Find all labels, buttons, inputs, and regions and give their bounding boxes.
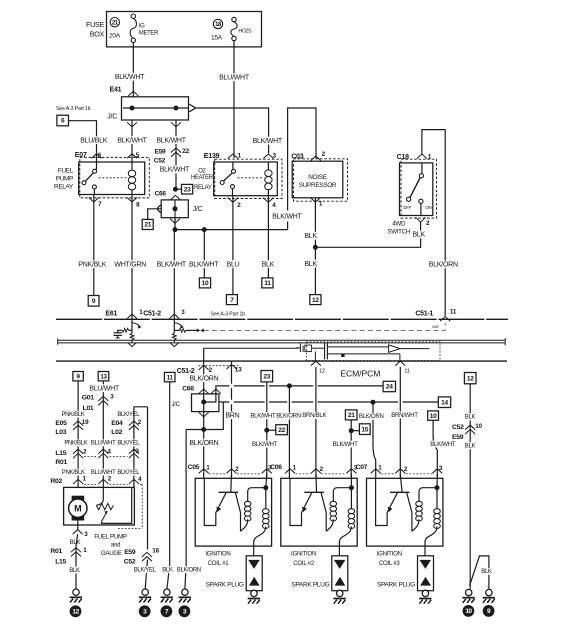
- svg-text:L15: L15: [55, 450, 66, 457]
- fuse box: [107, 12, 262, 47]
- fuse F21 IG METER: [131, 14, 135, 18]
- svg-text:7: 7: [98, 201, 102, 208]
- svg-text:IGNITION: IGNITION: [291, 550, 316, 557]
- svg-text:GAUGE: GAUGE: [101, 550, 122, 557]
- svg-text:PNK/BLK: PNK/BLK: [78, 261, 106, 268]
- svg-text:COIL #2: COIL #2: [293, 560, 315, 567]
- svg-text:BLU: BLU: [227, 261, 240, 268]
- E61 pin arrow: [127, 314, 137, 319]
- reference box 10 upper: [199, 278, 210, 288]
- svg-text:IGNITION: IGNITION: [377, 550, 402, 557]
- wire BLK/WHT box21 to C06 pin3: [345, 410, 357, 420]
- wire BRN/BLK ECM pin12 to C06 pin2: [315, 367, 317, 478]
- C51-2 pin 13 arrow: [227, 365, 237, 370]
- wire BLU E139 pin2 to box 7: [232, 196, 234, 295]
- E07 pin 6 arrow: [92, 154, 102, 159]
- svg-text:HO2S: HO2S: [238, 29, 252, 35]
- E07 pin 7 arrow: [89, 197, 99, 202]
- svg-text:11: 11: [450, 309, 457, 316]
- svg-text:J/C: J/C: [193, 206, 203, 213]
- ground number 10: [463, 605, 475, 617]
- ground number 3 left: [139, 605, 151, 617]
- C66 lower bottom arrow: [199, 412, 209, 417]
- ignition coil C06 box: [281, 478, 357, 546]
- spark plug #1 ground: [253, 590, 255, 592]
- svg-text:BLK: BLK: [304, 233, 317, 240]
- svg-text:COIL #1: COIL #1: [208, 560, 230, 567]
- spark plug #3 ground: [424, 590, 426, 592]
- gauge return to R02 pin 4: [102, 487, 132, 523]
- reference box 22: [276, 425, 288, 435]
- ECM boundary double line: [58, 339, 505, 341]
- labels row 3: [61, 469, 85, 476]
- svg-text:C52: C52: [154, 158, 166, 165]
- spark plug #3: [418, 556, 434, 591]
- reference box 11 upper: [262, 278, 273, 288]
- svg-text:L15: L15: [55, 558, 66, 565]
- svg-text:C06: C06: [270, 464, 282, 471]
- wire BLK box11 to ground 7: [167, 382, 170, 589]
- svg-text:BLK/YEL: BLK/YEL: [117, 470, 140, 476]
- reference box 12 lower: [464, 373, 476, 384]
- wire splice left branch to ground: [186, 429, 204, 431]
- svg-text:BRN: BRN: [225, 412, 239, 419]
- ignition coil C07 box: [367, 478, 443, 546]
- C66 bottom pin arrow: [170, 219, 180, 224]
- svg-text:20A: 20A: [109, 33, 121, 40]
- svg-text:BRN/BLK: BRN/BLK: [302, 412, 326, 419]
- svg-text:BLK/YEL: BLK/YEL: [117, 441, 140, 447]
- svg-text:BLK: BLK: [465, 414, 476, 421]
- svg-text:19: 19: [82, 419, 89, 426]
- wire BLK/WHT splice to box 10: [203, 230, 205, 278]
- E139 pin 1 arrow: [228, 154, 238, 159]
- ground G10: [462, 589, 474, 603]
- svg-text:C05: C05: [188, 464, 200, 471]
- svg-text:BLK/ORN: BLK/ORN: [189, 440, 218, 447]
- C18 pin 2 arrow: [416, 217, 426, 222]
- svg-text:R02: R02: [50, 478, 62, 485]
- svg-text:BLK/ORN: BLK/ORN: [276, 413, 301, 420]
- C06 primary winding: [333, 488, 351, 502]
- wire BLK/YEL E04 to R02 pin4: [133, 419, 135, 488]
- inline connector E59/C52 pin 22: [171, 148, 181, 153]
- svg-text:23: 23: [184, 186, 191, 193]
- svg-text:1: 1: [378, 464, 382, 471]
- svg-text:SPARK PLUG: SPARK PLUG: [206, 582, 244, 589]
- bulkhead boundary line: [56, 318, 508, 320]
- svg-text:22: 22: [278, 427, 285, 434]
- wire labels row PNK/BLK BLK/YEL: [61, 411, 85, 418]
- svg-text:WHT/GRN: WHT/GRN: [114, 261, 146, 268]
- svg-text:BLK/WHT: BLK/WHT: [156, 137, 186, 144]
- wire BLK C03 pin1 to box 12: [314, 198, 316, 295]
- svg-text:12: 12: [312, 297, 319, 304]
- svg-text:E04: E04: [111, 420, 123, 427]
- svg-text:4: 4: [272, 202, 276, 209]
- svg-text:HEATER: HEATER: [191, 175, 214, 181]
- svg-text:MAF: MAF: [432, 325, 440, 329]
- wire BLK/ORN to C07 pin1: [373, 402, 376, 478]
- wire BLK/ORN splice to ground 3: [185, 430, 186, 589]
- C05 secondary winding: [266, 474, 267, 488]
- ECM internal circuitry: [204, 347, 298, 349]
- ground junction dot BLK net: [313, 245, 318, 250]
- svg-text:15: 15: [361, 426, 368, 433]
- svg-text:BLK/WHT: BLK/WHT: [117, 137, 147, 144]
- reference box 14: [438, 397, 450, 408]
- svg-text:SPARK PLUG: SPARK PLUG: [291, 582, 329, 589]
- C51-2 pin 3 arrow: [169, 314, 179, 319]
- svg-text:E41: E41: [110, 86, 122, 93]
- C51-2 pin3 filter branch: [173, 319, 175, 342]
- svg-text:J/C: J/C: [107, 113, 117, 120]
- svg-text:10: 10: [430, 413, 437, 420]
- wire C66 to box 14 with C07 pin1 drop: [219, 401, 438, 403]
- E61 noise filter branch: [131, 319, 133, 342]
- svg-text:BLU/WHT: BLU/WHT: [219, 74, 250, 81]
- wire BLK/ORN to C06 pin1: [288, 386, 290, 478]
- svg-text:BLK: BLK: [262, 261, 275, 268]
- svg-text:22: 22: [182, 148, 189, 155]
- wire BLU/WHT fuse18 to E139 pin1: [233, 41, 235, 158]
- wire BLK/YEL to ground 3: [145, 407, 147, 589]
- E07 pin 5 arrow: [127, 154, 137, 159]
- svg-text:FUSE: FUSE: [86, 20, 104, 29]
- svg-text:C03: C03: [291, 153, 304, 160]
- svg-text:BLK: BLK: [69, 567, 80, 574]
- connector C51-2 lower dashes: [199, 365, 239, 367]
- wire PNK/BLK E07 pin7 to box 9: [93, 195, 95, 296]
- C66 left exit arrow: [157, 205, 161, 213]
- E61 branch arrow: [132, 323, 139, 326]
- svg-text:21: 21: [348, 412, 355, 419]
- svg-text:BLK/WHT: BLK/WHT: [333, 441, 359, 448]
- C05 primary winding: [248, 488, 266, 502]
- E139 coil: [267, 162, 269, 196]
- svg-text:1: 1: [428, 154, 432, 161]
- svg-text:1: 1: [83, 547, 87, 554]
- C05 pin arrows: [199, 469, 209, 474]
- svg-text:4: 4: [107, 448, 111, 455]
- C06 secondary winding: [350, 474, 352, 488]
- ground G12: [70, 589, 82, 603]
- svg-text:9: 9: [92, 298, 96, 305]
- wire BRN C51-2 pin13 to C05 pin2: [231, 361, 233, 478]
- svg-text:C51-1: C51-1: [415, 311, 433, 318]
- ground G7: [161, 589, 173, 603]
- svg-text:13: 13: [235, 367, 242, 374]
- svg-text:1: 1: [83, 476, 87, 483]
- fuel pump and gauge box: [64, 487, 135, 525]
- svg-text:BLK/ORN: BLK/ORN: [177, 567, 201, 573]
- C03 pin 1 arrow: [310, 198, 320, 203]
- svg-text:3: 3: [181, 309, 185, 316]
- svg-text:R01: R01: [55, 459, 67, 466]
- svg-text:E59: E59: [155, 148, 166, 155]
- E07 switch-coil dashed link: [99, 177, 127, 179]
- C03 pin 2 arrow: [311, 156, 321, 161]
- svg-text:E61: E61: [105, 310, 117, 317]
- svg-text:16: 16: [152, 548, 159, 555]
- fuel pump motor M: [72, 496, 85, 502]
- svg-text:4WD: 4WD: [392, 221, 406, 228]
- svg-text:C52: C52: [124, 558, 136, 565]
- wire BLK branch to ground 9: [470, 556, 489, 589]
- reference box 21 upper: [142, 219, 153, 229]
- svg-text:BLK/WHT: BLK/WHT: [160, 167, 190, 174]
- svg-text:1: 1: [238, 153, 242, 160]
- svg-text:R01: R01: [50, 548, 62, 555]
- reference box 12 upper: [310, 295, 321, 305]
- svg-text:RELAY: RELAY: [194, 185, 212, 191]
- wire BLK/WHT box23 to C05 pin3: [261, 371, 273, 382]
- svg-text:11: 11: [264, 280, 271, 287]
- svg-text:E05: E05: [55, 420, 67, 427]
- svg-text:2: 2: [209, 367, 213, 374]
- svg-text:E07: E07: [75, 152, 87, 159]
- svg-text:ON: ON: [425, 205, 431, 210]
- svg-text:BLK: BLK: [70, 539, 81, 546]
- reference box 24: [383, 381, 395, 391]
- svg-text:10: 10: [475, 423, 482, 430]
- svg-text:3: 3: [110, 393, 114, 400]
- wire BLK/WHT fuse21 to E41: [132, 43, 134, 97]
- svg-text:C66: C66: [182, 386, 194, 393]
- wire BLU/BLK box6 to E07 pin6: [69, 121, 97, 162]
- gauge sender variable resistor: [96, 487, 103, 505]
- E07 coil: [131, 162, 133, 198]
- C07 pin arrows: [371, 469, 381, 474]
- ground number 12: [70, 605, 82, 617]
- wire WHT/GRN E07 pin8 to E61: [131, 198, 133, 319]
- wire BLK/WHT E41 to E59/C52 pin22: [175, 120, 177, 189]
- svg-text:10: 10: [202, 280, 209, 287]
- svg-text:BLK/ORN: BLK/ORN: [359, 413, 384, 420]
- E07 switch: [94, 162, 96, 195]
- spark plug #2 ground: [339, 590, 341, 592]
- svg-text:M: M: [74, 504, 81, 514]
- svg-text:BLU/WHT: BLU/WHT: [91, 441, 116, 447]
- wire C66 to box 21: [148, 209, 162, 220]
- svg-text:C52: C52: [452, 424, 464, 431]
- svg-text:3: 3: [84, 531, 88, 538]
- wire BLK E139 pin4 to box 11: [267, 196, 269, 278]
- svg-text:2: 2: [237, 202, 241, 209]
- svg-text:COIL #3: COIL #3: [379, 560, 401, 567]
- svg-text:BLU/WHT: BLU/WHT: [91, 470, 116, 476]
- E139 switch-coil dashed link: [238, 177, 263, 179]
- svg-text:SPARK PLUG: SPARK PLUG: [377, 582, 415, 589]
- svg-text:C51-2: C51-2: [177, 368, 195, 375]
- fuse 21 circled label: [110, 18, 119, 27]
- inductor and inline link to C51-1 wire: [174, 329, 179, 331]
- E07 pin 8 arrow: [127, 197, 137, 202]
- wire C51-2 pin3 to C51-1 pin11 inside ECM: [204, 323, 445, 331]
- svg-text:BLK/WHT: BLK/WHT: [157, 261, 187, 268]
- svg-text:PNK/BLK: PNK/BLK: [62, 412, 85, 418]
- svg-text:FUEL PUMP: FUEL PUMP: [94, 534, 127, 541]
- svg-text:2: 2: [83, 448, 87, 455]
- svg-text:ECM/PCM: ECM/PCM: [340, 369, 380, 379]
- svg-text:BLK: BLK: [162, 567, 173, 573]
- svg-text:PUMP: PUMP: [56, 176, 73, 183]
- svg-text:15A: 15A: [211, 34, 223, 41]
- C05 driver transistor: [230, 474, 233, 492]
- svg-text:3: 3: [136, 448, 140, 455]
- svg-text:BLK/YEL: BLK/YEL: [117, 412, 140, 418]
- wire BLK/WHT C66 splice down to C51-2 pin3: [173, 230, 175, 320]
- riser from box14 run to splice: [204, 402, 224, 430]
- ground G9: [483, 589, 495, 603]
- reference box 15: [359, 424, 370, 435]
- svg-text:11: 11: [167, 374, 174, 381]
- svg-text:12: 12: [467, 375, 474, 382]
- svg-text:2: 2: [322, 151, 326, 158]
- svg-text:PNK/BLK: PNK/BLK: [64, 441, 87, 447]
- labels row 2: [64, 440, 88, 447]
- svg-text:BLK/WHT: BLK/WHT: [252, 441, 278, 448]
- svg-text:E59: E59: [124, 549, 136, 556]
- fuse 18 circled label: [213, 19, 222, 28]
- wire BLK to 4WD switch pin2: [315, 222, 420, 247]
- spark plug #2: [332, 556, 348, 591]
- svg-text:BLK: BLK: [413, 232, 426, 239]
- svg-text:2: 2: [108, 476, 112, 483]
- svg-text:7: 7: [230, 297, 234, 304]
- svg-text:O2: O2: [198, 168, 206, 174]
- C07 primary winding: [419, 488, 437, 502]
- svg-text:6: 6: [61, 118, 65, 125]
- svg-text:RELAY: RELAY: [54, 184, 74, 191]
- svg-text:9: 9: [77, 373, 81, 380]
- ground number 3 right: [179, 605, 191, 617]
- C18 switch lever: [421, 163, 422, 216]
- svg-text:BLK: BLK: [304, 261, 317, 268]
- ECM pin 11 arrow: [395, 361, 405, 366]
- wire from E41 to E139 pin3: [195, 108, 268, 153]
- C06 pin arrows: [285, 469, 295, 474]
- svg-text:BLU/BLK: BLU/BLK: [80, 137, 108, 144]
- svg-text:C51-2: C51-2: [143, 310, 161, 317]
- svg-text:1: 1: [293, 464, 297, 471]
- svg-text:BOX: BOX: [90, 30, 105, 39]
- svg-text:BLK: BLK: [465, 443, 476, 450]
- svg-text:SWITCH: SWITCH: [387, 229, 410, 236]
- wire BLU/WHT box13 to gauge: [102, 381, 104, 488]
- E139 pin 3 arrow: [263, 154, 273, 159]
- ground number 7: [161, 605, 173, 617]
- spark plug #1: [246, 556, 262, 591]
- svg-text:BLK/WHT: BLK/WHT: [253, 138, 283, 145]
- svg-text:8: 8: [136, 202, 140, 209]
- E139 pin 2 arrow: [228, 198, 238, 203]
- svg-text:2: 2: [138, 419, 142, 426]
- svg-text:10: 10: [465, 608, 472, 615]
- svg-text:C07: C07: [356, 464, 368, 471]
- junction dot to box 23: [173, 187, 178, 192]
- ECM pin 12 arrow: [311, 361, 321, 366]
- ECM/PCM dotted enclosure: [307, 342, 441, 361]
- svg-text:See A-3 Part 1b: See A-3 Part 1b: [56, 106, 91, 112]
- lower boundary line: [56, 360, 507, 362]
- ground G3 left: [139, 589, 151, 603]
- C18 pin 1 arrow: [417, 154, 427, 159]
- C51-2 pin 2 arrow: [199, 365, 209, 370]
- wire BLK/WHT E41 to E07 pin5: [131, 120, 133, 162]
- wire BLK/WHT box10 to C07 pin3: [428, 411, 439, 420]
- svg-text:BLK/WHT: BLK/WHT: [115, 74, 145, 81]
- svg-text:BLK/WHT: BLK/WHT: [430, 441, 456, 448]
- wire BLK box12 to C52/E59 pin10: [469, 384, 471, 589]
- pin arrow into E41: [128, 91, 138, 96]
- E139 switch: [232, 162, 234, 196]
- svg-text:C66: C66: [155, 190, 167, 197]
- svg-text:BLK/ORN: BLK/ORN: [429, 262, 458, 269]
- motor pin 3 to R01/L15 to ground 12: [77, 521, 79, 530]
- svg-text:BLK/YEL: BLK/YEL: [134, 567, 157, 573]
- svg-text:21: 21: [144, 222, 151, 229]
- svg-text:C18: C18: [397, 154, 410, 161]
- splice wire from C66 to BLK/WHT riser: [175, 229, 288, 231]
- svg-text:1: 1: [206, 464, 210, 471]
- svg-text:BLK/WHT: BLK/WHT: [272, 213, 302, 220]
- svg-text:L02: L02: [111, 429, 122, 436]
- wire BLK/ORN C51-2 pin2 to C66: [203, 348, 205, 394]
- svg-text:13: 13: [100, 373, 107, 380]
- capacitor to ground at E61: [118, 330, 122, 333]
- svg-text:and: and: [111, 542, 120, 548]
- reference box 13 lower: [98, 372, 109, 381]
- reference box 23 upper: [182, 184, 193, 194]
- svg-text:BLK: BLK: [481, 569, 492, 575]
- fuse F18 HO2S: [232, 17, 236, 21]
- svg-text:BLU/WHT: BLU/WHT: [89, 385, 120, 392]
- C51-1 pin 11 arrow: [440, 317, 450, 322]
- svg-text:4: 4: [138, 476, 142, 483]
- svg-text:SUPRESSOR: SUPRESSOR: [299, 182, 337, 189]
- ignition coil C05 box: [195, 478, 271, 546]
- E41 lower pin arrows: [127, 122, 137, 127]
- wire BLK/YEL jog to ground wire: [134, 407, 148, 419]
- E41 right exit arrow: [189, 104, 195, 111]
- svg-text:BLK/WHT: BLK/WHT: [250, 412, 276, 419]
- svg-text:BLK/ORN: BLK/ORN: [189, 375, 218, 382]
- svg-text:BLK/WHT: BLK/WHT: [189, 261, 219, 268]
- svg-text:E59: E59: [452, 434, 464, 441]
- C06 driver transistor: [315, 474, 318, 492]
- C07 driver transistor: [400, 474, 402, 492]
- svg-text:See A-3 Part 1b: See A-3 Part 1b: [211, 312, 246, 318]
- svg-text:24: 24: [386, 384, 393, 391]
- svg-text:14: 14: [441, 399, 448, 406]
- svg-text:J/C: J/C: [171, 401, 180, 408]
- BLK/WHT riser to C03 pin2: [288, 108, 316, 230]
- svg-text:IG: IG: [139, 23, 145, 29]
- svg-text:12: 12: [319, 369, 325, 375]
- svg-text:METER: METER: [139, 31, 159, 37]
- wire to box 24 with C06 pin1 drop: [216, 386, 383, 394]
- reference box 9 upper: [88, 296, 99, 307]
- svg-text:2: 2: [426, 220, 430, 227]
- svg-text:23: 23: [263, 373, 270, 380]
- svg-text:L03: L03: [55, 429, 66, 436]
- svg-text:11: 11: [404, 369, 410, 375]
- svg-text:1: 1: [319, 201, 323, 208]
- reference box 9 lower: [73, 372, 83, 381]
- svg-text:OFF: OFF: [403, 205, 412, 210]
- svg-text:IGNITION: IGNITION: [205, 550, 230, 557]
